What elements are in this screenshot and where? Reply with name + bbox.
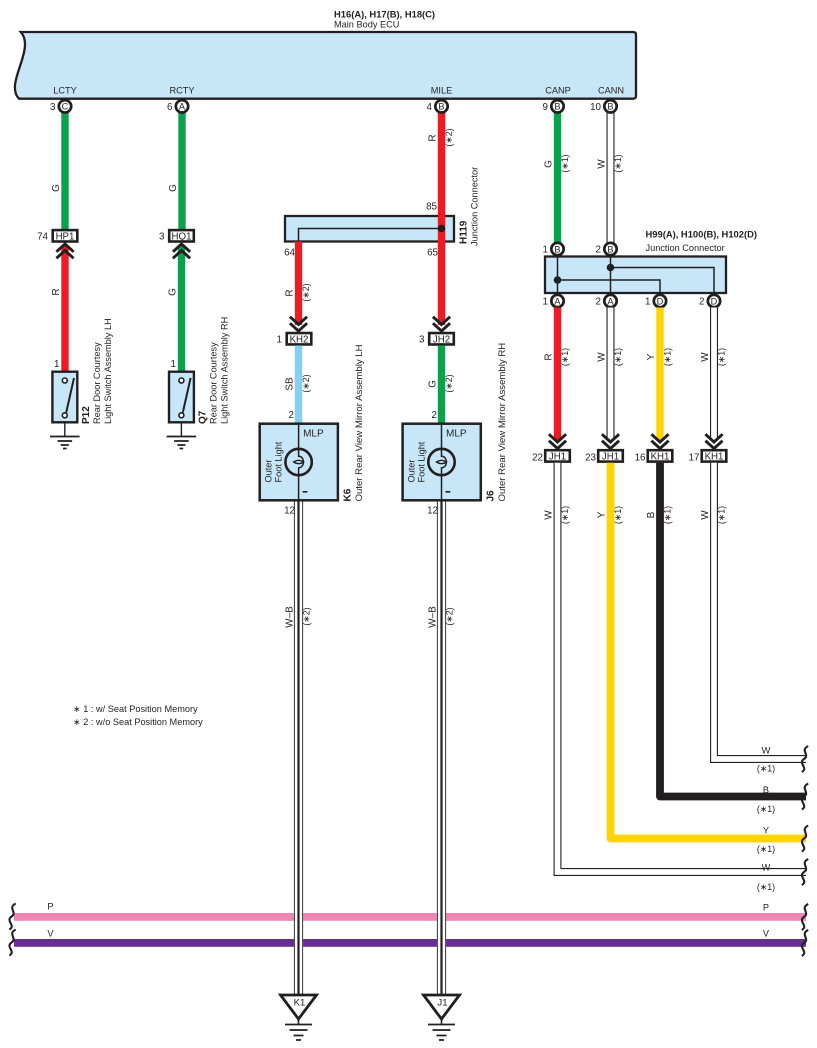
svg-text:Rear Door Courtesy: Rear Door Courtesy xyxy=(92,342,102,424)
svg-text:J6: J6 xyxy=(486,490,497,502)
wire G from LCTY xyxy=(61,112,68,229)
svg-text:A: A xyxy=(179,102,186,112)
connector JH2 xyxy=(429,333,454,344)
pin 2 D of H99 xyxy=(708,295,720,307)
wire Y from JH1 23 to right edge xyxy=(611,463,807,839)
svg-text:17: 17 xyxy=(689,453,700,464)
svg-text:∗ 2 : w/o Seat Position Memory: ∗ 2 : w/o Seat Position Memory xyxy=(73,717,203,727)
junction dot 1 xyxy=(554,276,562,284)
pin 1 B of H99 xyxy=(551,243,563,255)
arrow at KH1 17 xyxy=(705,434,722,442)
svg-text:A: A xyxy=(607,296,614,306)
svg-text:SB: SB xyxy=(285,377,296,391)
switch Q7 blade xyxy=(183,378,191,413)
wire G HQ1 to Q7 xyxy=(178,246,185,371)
wire W-B K6 to K1 xyxy=(294,502,303,996)
svg-text:G: G xyxy=(51,184,62,192)
break symbol P right xyxy=(802,904,808,930)
wire R HP1 to P12 xyxy=(61,246,68,371)
connector HP1 xyxy=(53,230,78,241)
svg-text:KH1: KH1 xyxy=(705,451,724,462)
svg-text:B: B xyxy=(607,244,613,254)
svg-text:MLP: MLP xyxy=(446,429,467,440)
arrow at HQ1 xyxy=(173,244,190,252)
svg-text:1: 1 xyxy=(543,297,548,308)
svg-text:(∗1): (∗1) xyxy=(757,804,775,814)
svg-text:H16(A), H17(B), H18(C): H16(A), H17(B), H18(C) xyxy=(334,9,435,20)
break symbol V left xyxy=(9,930,15,956)
svg-text:HP1: HP1 xyxy=(56,231,75,242)
svg-text:(∗2): (∗2) xyxy=(444,128,454,146)
svg-text:D: D xyxy=(657,296,664,306)
Main Body ECU block xyxy=(15,32,636,99)
switch P12 contacts xyxy=(62,378,67,383)
wire V (violet, horizontal) xyxy=(14,939,806,947)
wire W from KH1 17 to right edge xyxy=(714,463,806,759)
svg-text:JH1: JH1 xyxy=(602,451,619,462)
svg-text:(∗2): (∗2) xyxy=(444,374,454,392)
svg-text:85: 85 xyxy=(426,202,437,213)
internal wire to 2D xyxy=(611,268,715,294)
svg-text:(∗1): (∗1) xyxy=(757,764,775,774)
pin 1 A of H99 xyxy=(551,295,563,307)
svg-text:RCTY: RCTY xyxy=(169,86,194,96)
wire P12 to ground xyxy=(64,424,66,437)
svg-text:9: 9 xyxy=(543,102,548,113)
svg-text:G: G xyxy=(168,184,179,192)
svg-text:W: W xyxy=(700,352,711,362)
break symbol Y right xyxy=(802,826,808,852)
pin 4 B of ECU xyxy=(435,100,447,112)
svg-text:Outer Rear View Mirror Assembl: Outer Rear View Mirror Assembly RH xyxy=(497,343,508,502)
arrow at KH2 xyxy=(290,317,307,325)
svg-text:MLP: MLP xyxy=(303,429,324,440)
svg-text:B: B xyxy=(607,102,613,112)
connector KH1 17 xyxy=(702,450,727,461)
internal wire 2B-2A xyxy=(610,257,612,294)
break symbol W2 right xyxy=(802,859,808,885)
ground of Q7 xyxy=(167,437,197,449)
internal wire 1B-1A xyxy=(557,257,559,294)
svg-text:C: C xyxy=(62,102,69,112)
svg-text:Foot Light: Foot Light xyxy=(274,441,284,482)
svg-text:Y: Y xyxy=(646,353,657,360)
svg-text:2: 2 xyxy=(699,297,704,308)
svg-text:D: D xyxy=(711,296,718,306)
svg-text:Junction Connector: Junction Connector xyxy=(470,167,480,246)
wire R from MILE xyxy=(438,112,445,325)
arrow at JH2 xyxy=(433,317,450,325)
svg-text:W: W xyxy=(544,510,555,520)
svg-text:G: G xyxy=(428,380,439,388)
svg-text:Outer: Outer xyxy=(406,460,416,483)
svg-text:1: 1 xyxy=(54,359,59,370)
svg-text:W: W xyxy=(762,863,771,873)
svg-text:W–B: W–B xyxy=(285,606,296,628)
svg-text:Y: Y xyxy=(597,511,608,518)
svg-text:B: B xyxy=(646,511,657,518)
svg-text:(∗1): (∗1) xyxy=(717,348,727,366)
connector HQ1 xyxy=(169,230,194,241)
svg-text:KH2: KH2 xyxy=(290,334,309,345)
internal wire to 1D xyxy=(558,280,661,293)
svg-text:B: B xyxy=(554,244,560,254)
wire W from CANN xyxy=(607,112,615,243)
svg-text:W: W xyxy=(700,510,711,520)
arrow at JH1 23 xyxy=(602,434,619,442)
svg-text:(∗1): (∗1) xyxy=(560,348,570,366)
pin 1 D of H99 xyxy=(654,295,666,307)
wire P (pink, horizontal) xyxy=(14,913,806,921)
svg-text:∗ 1 : w/ Seat Position Memory: ∗ 1 : w/ Seat Position Memory xyxy=(73,704,198,714)
svg-text:W: W xyxy=(762,746,771,756)
wire R 1A to JH1 xyxy=(554,308,561,441)
svg-text:1: 1 xyxy=(171,359,176,370)
svg-text:Rear Door Courtesy: Rear Door Courtesy xyxy=(209,342,219,424)
svg-text:LCTY: LCTY xyxy=(53,86,77,96)
svg-text:Junction Connector: Junction Connector xyxy=(646,243,725,253)
svg-text:3: 3 xyxy=(50,102,56,113)
svg-text:B: B xyxy=(763,785,769,795)
svg-text:(∗1): (∗1) xyxy=(757,844,775,854)
svg-text:74: 74 xyxy=(37,232,48,243)
svg-text:Q7: Q7 xyxy=(198,410,209,424)
svg-text:16: 16 xyxy=(635,453,646,464)
svg-text:Y: Y xyxy=(763,826,769,836)
svg-text:22: 22 xyxy=(532,453,543,464)
svg-text:Outer: Outer xyxy=(264,460,274,483)
svg-text:R: R xyxy=(285,289,296,296)
svg-text:(∗1): (∗1) xyxy=(613,348,623,366)
junction dot 2 xyxy=(607,264,615,272)
wire SB KH2 to K6 xyxy=(295,346,302,423)
break symbol P left xyxy=(9,904,15,930)
svg-text:2: 2 xyxy=(596,297,601,308)
wire G from RCTY xyxy=(178,112,185,229)
wire W from JH1 22 to right edge xyxy=(558,463,807,872)
svg-text:3: 3 xyxy=(419,335,425,346)
wire G from CANP xyxy=(554,112,561,243)
svg-text:65: 65 xyxy=(427,248,438,259)
svg-text:(∗1): (∗1) xyxy=(560,154,570,172)
svg-text:1: 1 xyxy=(277,335,282,346)
svg-text:B: B xyxy=(438,102,444,112)
svg-text:R: R xyxy=(544,353,555,360)
svg-text:J1: J1 xyxy=(437,998,447,1009)
svg-text:R: R xyxy=(428,134,439,141)
svg-text:CANN: CANN xyxy=(598,86,624,96)
wire B from KH1 16 to right edge xyxy=(660,463,806,797)
wire W-B J6 to J1 xyxy=(437,502,446,996)
svg-text:MILE: MILE xyxy=(431,86,452,96)
junction connector H99 box xyxy=(545,257,726,294)
wire R through H119 xyxy=(438,215,445,243)
pin 2 A of H99 xyxy=(604,295,616,307)
svg-text:23: 23 xyxy=(585,453,596,464)
svg-text:2: 2 xyxy=(596,245,601,256)
svg-text:V: V xyxy=(763,929,770,939)
svg-text:R: R xyxy=(51,288,62,295)
ground of P12 xyxy=(50,437,80,449)
switch Q7 box xyxy=(169,372,194,423)
internal wire of H119 xyxy=(299,229,442,242)
svg-text:1: 1 xyxy=(645,297,650,308)
ground K1 xyxy=(281,995,317,1019)
connector KH1 16 xyxy=(648,450,673,461)
svg-text:CANP: CANP xyxy=(545,86,571,96)
svg-text:4: 4 xyxy=(427,102,433,113)
arrow at HP1 xyxy=(56,244,73,252)
svg-text:(∗1): (∗1) xyxy=(613,154,623,172)
svg-text:6: 6 xyxy=(167,102,173,113)
connector KH2 xyxy=(287,333,312,344)
svg-text:(∗1): (∗1) xyxy=(560,506,570,524)
connector JH1 22 xyxy=(545,450,570,461)
svg-text:H119: H119 xyxy=(459,220,470,244)
svg-text:12: 12 xyxy=(427,506,438,517)
connector JH1 23 xyxy=(598,450,623,461)
junction connector H119 box xyxy=(285,216,454,242)
svg-text:A: A xyxy=(554,296,561,306)
pin 3 C of ECU xyxy=(59,100,71,112)
junction dot in H119 xyxy=(438,225,446,233)
wire W 2D to KH1 xyxy=(710,308,718,441)
svg-text:Light Switch Assembly LH: Light Switch Assembly LH xyxy=(103,318,113,424)
svg-text:10: 10 xyxy=(590,102,601,113)
svg-text:K6: K6 xyxy=(343,488,354,501)
svg-text:Light Switch Assembly RH: Light Switch Assembly RH xyxy=(220,317,230,424)
svg-text:Foot Light: Foot Light xyxy=(416,441,426,482)
svg-text:64: 64 xyxy=(284,248,295,259)
arrow at KH1 16 xyxy=(651,434,668,442)
lamp K6 Outer Foot Light box xyxy=(260,424,338,501)
svg-text:P: P xyxy=(763,903,769,913)
svg-text:12: 12 xyxy=(284,506,295,517)
switch Q7 contacts xyxy=(179,378,184,383)
svg-text:(∗1): (∗1) xyxy=(757,882,775,892)
svg-text:K1: K1 xyxy=(294,998,306,1009)
svg-text:P12: P12 xyxy=(81,406,92,424)
wire R 64 to KH2 xyxy=(295,242,302,326)
ground J1 xyxy=(424,995,460,1019)
svg-text:JH2: JH2 xyxy=(433,334,450,345)
break symbol B right xyxy=(802,784,808,810)
svg-text:W: W xyxy=(597,352,608,362)
svg-text:2: 2 xyxy=(289,410,294,421)
svg-text:P: P xyxy=(47,902,53,912)
svg-text:(∗2): (∗2) xyxy=(301,283,311,301)
svg-text:HQ1: HQ1 xyxy=(172,231,192,242)
svg-text:3: 3 xyxy=(159,232,165,243)
pin 9 B of ECU xyxy=(551,100,563,112)
wire Q7 to ground xyxy=(180,424,182,437)
svg-text:JH1: JH1 xyxy=(549,451,566,462)
svg-text:W: W xyxy=(597,159,608,169)
switch P12 blade xyxy=(66,378,74,413)
arrow at JH1 22 xyxy=(549,434,566,442)
svg-text:(∗1): (∗1) xyxy=(717,506,727,524)
svg-text:(∗2): (∗2) xyxy=(301,374,311,392)
svg-text:(∗1): (∗1) xyxy=(663,506,673,524)
wire G JH2 to J6 xyxy=(438,346,445,423)
svg-text:1: 1 xyxy=(543,245,548,256)
switch P12 box xyxy=(52,372,77,423)
break symbol W right xyxy=(802,746,808,772)
lamp J6 Outer Foot Light box xyxy=(403,424,481,501)
svg-text:Main Body ECU: Main Body ECU xyxy=(334,20,399,30)
svg-text:G: G xyxy=(168,288,179,296)
wire W 2A to JH1 xyxy=(607,308,615,441)
svg-text:B: B xyxy=(554,102,560,112)
break symbol V right xyxy=(802,930,808,956)
svg-text:(∗1): (∗1) xyxy=(663,348,673,366)
pin 10 B of ECU xyxy=(604,100,616,112)
svg-text:(∗2): (∗2) xyxy=(302,607,312,625)
wire Y 1D to KH1 xyxy=(656,308,663,441)
svg-text:KH1: KH1 xyxy=(651,451,670,462)
svg-text:G: G xyxy=(544,160,555,168)
svg-text:H99(A), H100(B), H102(D): H99(A), H100(B), H102(D) xyxy=(646,229,757,240)
svg-text:(∗1): (∗1) xyxy=(613,506,623,524)
svg-text:W–B: W–B xyxy=(428,606,439,628)
svg-text:Outer Rear View Mirror Assembl: Outer Rear View Mirror Assembly LH xyxy=(354,344,365,501)
svg-text:(∗2): (∗2) xyxy=(445,607,455,625)
svg-text:2: 2 xyxy=(432,410,437,421)
pin 2 B of H99 xyxy=(604,243,616,255)
svg-text:V: V xyxy=(47,929,54,939)
pin 6 A of ECU xyxy=(176,100,188,112)
